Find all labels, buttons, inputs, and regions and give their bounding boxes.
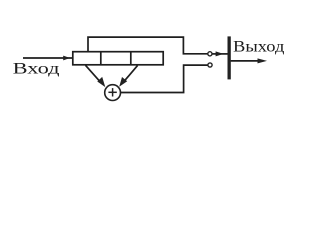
register SR (3-cell shift register box): [73, 52, 163, 65]
wire wiper line: [212, 53, 228, 55]
cell divider 2: [130, 52, 132, 65]
arrowhead wiper: [216, 51, 224, 56]
arrowhead tap right: [119, 77, 127, 87]
node bottom contact: [208, 63, 212, 67]
svg-text:Вход: Вход: [13, 60, 60, 77]
node top contact: [208, 52, 212, 56]
wire xor to bottom contact: [121, 65, 208, 92]
wire output line: [231, 60, 260, 62]
wire top feedback tap: [88, 37, 208, 54]
arrowhead tap left: [97, 77, 105, 87]
output bar: [228, 36, 231, 79]
xor plus sign: [108, 88, 116, 96]
arrowhead output: [258, 58, 268, 63]
svg-text:Выход: Выход: [233, 38, 285, 55]
wire tap arrow left: [86, 65, 102, 83]
cell divider 1: [100, 52, 102, 65]
wire tap arrow right: [123, 65, 138, 83]
xor adder U1: [105, 85, 121, 101]
wire input line: [23, 57, 73, 59]
arrowhead input: [63, 56, 70, 61]
